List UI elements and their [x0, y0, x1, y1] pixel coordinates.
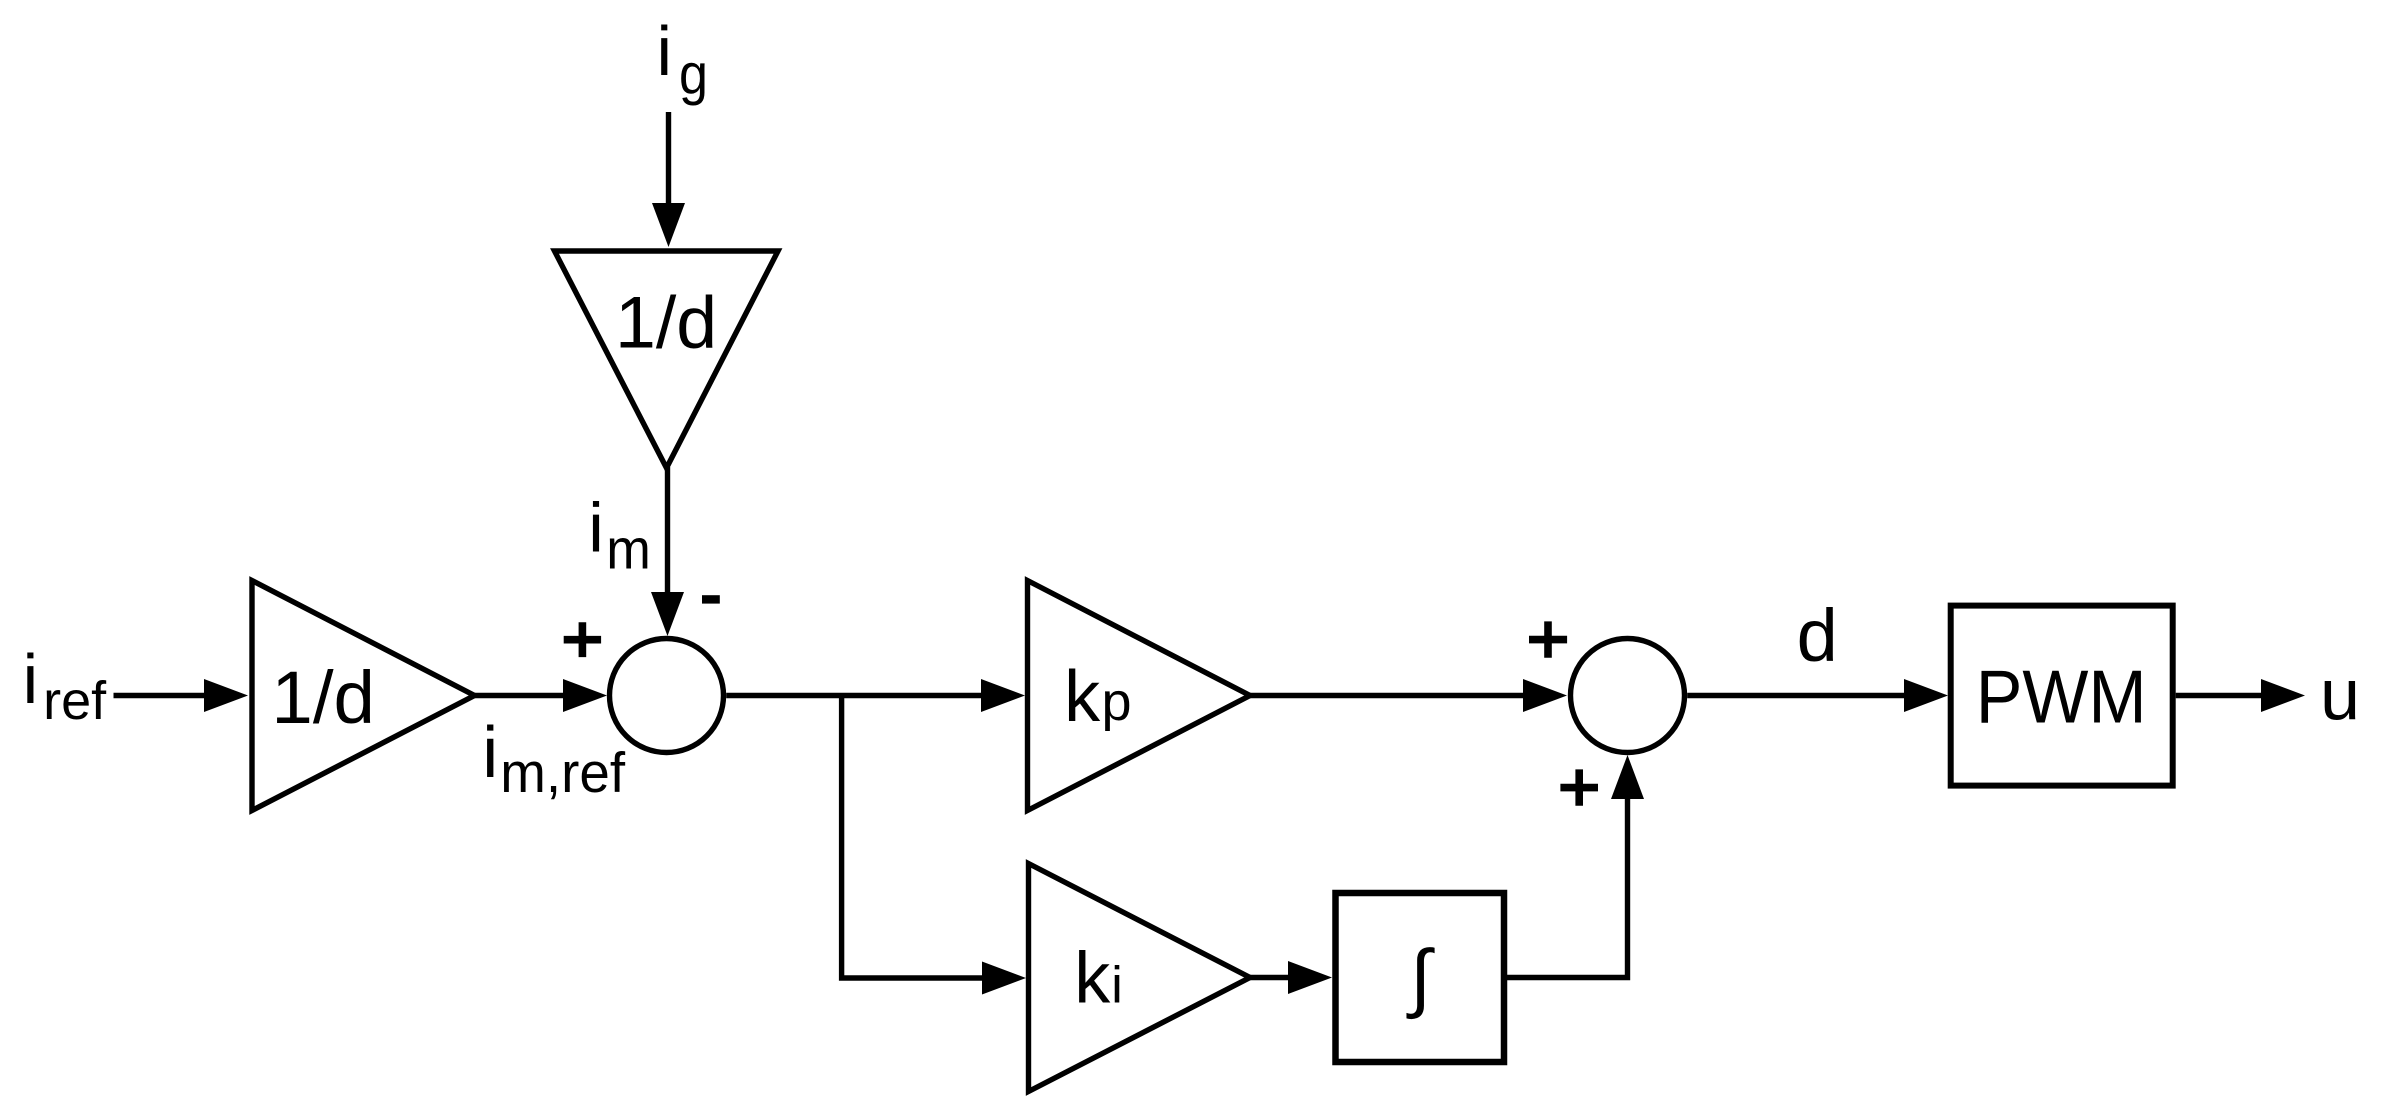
- svg-text:d: d: [1797, 594, 1838, 677]
- svg-text:1/d: 1/d: [271, 656, 375, 739]
- svg-text:p: p: [1102, 672, 1132, 732]
- svg-text:k: k: [1064, 657, 1101, 737]
- svg-text:1/d: 1/d: [615, 281, 717, 364]
- svg-text:m,ref: m,ref: [500, 741, 625, 805]
- svg-text:∫: ∫: [1406, 935, 1435, 1020]
- svg-text:m: m: [606, 518, 651, 582]
- svg-text:i: i: [1111, 957, 1123, 1015]
- svg-text:i: i: [23, 640, 39, 718]
- svg-text:i: i: [482, 713, 498, 793]
- svg-text:ref: ref: [43, 671, 107, 731]
- svg-text:i: i: [657, 12, 673, 90]
- svg-text:g: g: [679, 42, 708, 106]
- svg-text:u: u: [2320, 656, 2360, 736]
- svg-text:PWM: PWM: [1976, 655, 2147, 739]
- svg-text:i: i: [588, 489, 604, 567]
- svg-text:k: k: [1074, 939, 1111, 1019]
